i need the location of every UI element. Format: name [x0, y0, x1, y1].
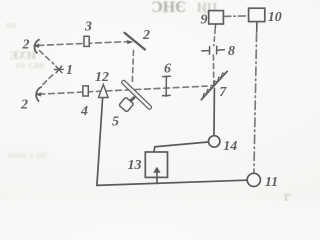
svg-text:ви: ви — [6, 20, 17, 31]
wire: solid beamsplitter 7 down to detector 14 — [213, 88, 215, 135]
wire: dashed beam box 9 down to slit 8 — [214, 29, 215, 46]
arrowhead at top-left mirror 2 — [33, 44, 40, 48]
svg-text:шип а шг: шип а шг — [8, 150, 48, 161]
mirror 2 (bottom-left concave) — [36, 87, 41, 101]
lens 6 — [163, 76, 171, 96]
wire: stub below box 10 — [256, 22, 258, 32]
motor 5 shaft stub — [131, 98, 134, 101]
svg-text:вкл оз: вкл оз — [15, 59, 44, 71]
svg-text:ЭНС: ЭНС — [151, 0, 186, 16]
svg-text:2: 2 — [20, 98, 28, 113]
svg-text:5: 5 — [112, 114, 119, 129]
svg-text:1: 1 — [66, 63, 73, 78]
attenuator 12 (triangle) — [99, 84, 109, 97]
detector 14 (circle) — [209, 136, 220, 147]
svg-text:6: 6 — [164, 61, 171, 76]
arrowhead at top-right mirror 2 — [127, 40, 133, 44]
arrowhead at bottom-left mirror 2 — [35, 92, 42, 96]
beamsplitter 7 hatching — [203, 73, 225, 98]
amplifier box 13 — [145, 152, 167, 177]
chopper plate (tilted mirror) — [121, 80, 152, 110]
arrowhead into amplifier 13 — [153, 167, 160, 173]
wire: arrow shaft from bottom wire into amplifier 13 — [156, 172, 158, 184]
svg-text:14: 14 — [223, 139, 237, 154]
wire: dash-dot link box 9 to box 10 — [224, 15, 249, 18]
svg-text:2: 2 — [142, 28, 150, 43]
motor 5 — [119, 97, 134, 112]
svg-text:4: 4 — [80, 104, 88, 119]
svg-text:7: 7 — [219, 85, 227, 100]
source 1 (asterisk) — [54, 66, 63, 73]
wire: dashed vertical beam mirror 2 (top-right) down to chopper plate — [132, 51, 133, 84]
faint bleed-through text left row 2 — [15, 59, 44, 71]
svg-text:10: 10 — [268, 10, 282, 25]
svg-text:11: 11 — [265, 175, 278, 190]
mirror 2 (top-left concave) — [35, 40, 39, 53]
box 9 — [209, 11, 224, 24]
wire: lower dashed beam from mirror 2 to beamsplitter 7 — [39, 86, 207, 94]
filter 4 — [83, 86, 88, 96]
faint bleed-through text left — [10, 48, 36, 62]
faint bleed-through smudges bottom left — [6, 20, 48, 161]
svg-text:13: 13 — [128, 158, 142, 173]
svg-text:2: 2 — [22, 38, 30, 53]
faint bleed-through text top center — [151, 0, 186, 16]
box 10 — [249, 8, 265, 21]
svg-text:12: 12 — [95, 70, 109, 85]
svg-text:9: 9 — [201, 12, 208, 27]
beamsplitter 7 — [201, 71, 227, 99]
wire: solid detector 14 to amplifier 13 — [154, 142, 208, 152]
svg-text:3: 3 — [84, 19, 92, 34]
svg-text:Г: Г — [284, 191, 291, 202]
filter 3 — [84, 36, 89, 46]
wire: dashed ray source 1 to top-left mirror 2 — [40, 51, 54, 64]
wire: dashed ray source 1 to bottom-left mirror 2 — [42, 75, 53, 86]
wire: solid from attenuator 12 down and along bottom to detector 11 — [97, 98, 247, 185]
wire: top dashed beam from mirror 2 to mirror 2 (top-right) — [38, 42, 129, 46]
svg-text:8: 8 — [228, 44, 235, 59]
mirror 2 (top-right flat) — [125, 33, 145, 50]
detector 11 (circle) — [247, 173, 260, 186]
wire: stub below box 9 — [214, 24, 216, 28]
faint bleed-through text top center 2 — [197, 1, 217, 16]
wire: dashed beam slit 8 down to beamsplitter 7 — [212, 55, 214, 85]
slit 8 — [202, 46, 225, 54]
wire: dash-dot vertical box 10 down to detector 11 — [254, 33, 257, 173]
